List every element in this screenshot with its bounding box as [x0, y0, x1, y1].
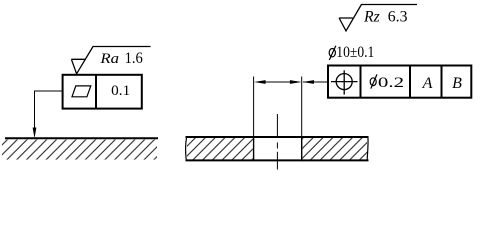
svg-text:10±0.1: 10±0.1 [336, 44, 374, 61]
svg-text:A: A [422, 75, 433, 92]
svg-text:Rz: Rz [363, 9, 380, 26]
svg-text:Ra: Ra [99, 51, 119, 67]
svg-text:6.3: 6.3 [388, 9, 408, 26]
svg-text:1.6: 1.6 [125, 50, 143, 67]
svg-text:0.1: 0.1 [111, 83, 130, 99]
svg-text:B: B [452, 75, 462, 92]
svg-text:0.2: 0.2 [378, 75, 404, 91]
